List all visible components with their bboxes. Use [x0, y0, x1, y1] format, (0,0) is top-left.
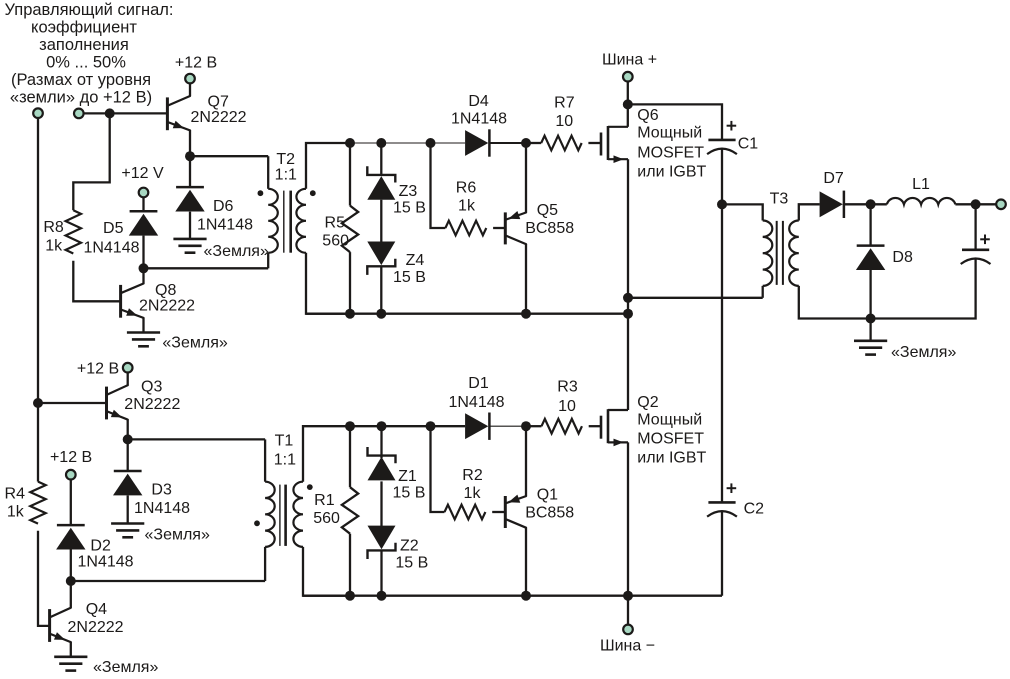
resistor R2 1k	[445, 505, 486, 520]
wire tap down to R2	[431, 426, 445, 512]
svg-text:L1: L1	[912, 176, 930, 193]
node D2 anode / Q4 collector / T1	[66, 576, 76, 586]
svg-text:D2: D2	[90, 538, 111, 555]
wire node to R3	[526, 425, 542, 427]
svg-text:15 В: 15 В	[393, 485, 426, 502]
T2 secondary winding	[296, 189, 306, 253]
wire Q1 collector to rail	[525, 528, 527, 596]
svg-text:R6: R6	[456, 180, 477, 197]
wire output cap to return	[871, 258, 976, 319]
wire tap down to R6	[431, 143, 446, 228]
wire D1 cathode to node	[489, 425, 526, 427]
wire T3 secondary bottom	[799, 286, 871, 319]
transistor Q2 power MOSFET	[600, 416, 603, 439]
svg-text:MOSFET: MOSFET	[637, 145, 704, 162]
svg-text:1k: 1k	[45, 238, 63, 255]
transistor Q6 power MOSFET	[600, 133, 603, 156]
svg-text:2N2222: 2N2222	[139, 298, 195, 315]
wire node to T1 primary top	[128, 438, 265, 440]
svg-text:«земли» до +12 В): «земли» до +12 В)	[10, 89, 152, 107]
node Q6 source / T3	[623, 293, 633, 303]
wire to T3 primary bottom	[628, 297, 763, 299]
svg-text:15 В: 15 В	[393, 200, 426, 217]
svg-text:Мощный: Мощный	[637, 412, 702, 429]
svg-text:MOSFET: MOSFET	[637, 431, 704, 448]
wire Q4 collector	[70, 581, 72, 608]
wire to Q3 base	[38, 402, 107, 404]
svg-text:+12 В: +12 В	[50, 449, 92, 466]
svg-text:D8: D8	[892, 249, 913, 266]
node input junction	[105, 108, 115, 118]
diode D7	[820, 191, 843, 217]
svg-text:или IGBT: или IGBT	[637, 450, 706, 467]
T3 secondary winding	[789, 221, 799, 286]
diode D1 1N4148	[465, 413, 488, 439]
node D8 anode / output return	[866, 314, 876, 324]
svg-text:R3: R3	[557, 379, 578, 396]
svg-text:Z3: Z3	[399, 183, 418, 200]
svg-text:C1: C1	[738, 136, 759, 153]
svg-text:10: 10	[558, 398, 576, 415]
node Q6 drain / C1	[623, 99, 633, 109]
wire Q3 emitter to node	[127, 420, 129, 440]
zener diode Z4 15V	[367, 259, 395, 275]
node rail Z2 bottom	[377, 591, 387, 601]
node rail R6 tap	[426, 138, 436, 148]
T1 primary winding	[265, 482, 275, 547]
svg-text:Q3: Q3	[141, 379, 162, 396]
wire Q7 emitter to node	[189, 130, 191, 156]
svg-text:«Земля»: «Земля»	[162, 334, 227, 351]
svg-text:Мощный: Мощный	[637, 125, 702, 142]
svg-text:BC858: BC858	[525, 220, 574, 237]
inductor L1	[887, 198, 956, 204]
input terminal (signal)	[74, 109, 84, 119]
wire T1 primary bottom	[264, 547, 266, 581]
wire T1 primary top	[264, 439, 266, 481]
svg-text:1k: 1k	[458, 198, 476, 215]
svg-text:D1: D1	[468, 375, 489, 392]
diode D6 1N4148	[189, 156, 191, 187]
svg-text:560: 560	[322, 233, 349, 250]
node rail Q1 collector	[521, 591, 531, 601]
ground D3	[111, 524, 144, 538]
node rail R1 bottom	[345, 591, 355, 601]
T3 core	[776, 221, 778, 285]
ground Q4	[54, 657, 87, 671]
node rail Q5 collector	[521, 309, 531, 319]
node rail Z4 bottom	[376, 309, 386, 319]
resistor R3 10	[542, 419, 582, 434]
zener diode Z1 15V	[380, 426, 382, 458]
wire T1 secondary top to rail	[303, 426, 350, 482]
svg-text:R4: R4	[5, 486, 26, 503]
wire input node down to R8	[73, 113, 109, 210]
svg-text:D6: D6	[213, 198, 234, 215]
wire T2 primary bottom	[267, 253, 269, 268]
wire C1 node down to C2	[721, 204, 723, 502]
transistor Q1 BC858	[504, 496, 507, 528]
node D7/L1/D8	[866, 199, 876, 209]
svg-text:+12 V: +12 V	[121, 165, 164, 182]
svg-text:1N4148: 1N4148	[78, 554, 134, 571]
svg-text:2N2222: 2N2222	[124, 396, 180, 413]
node bus- junction	[623, 591, 633, 601]
svg-text:T1: T1	[275, 433, 294, 450]
svg-text:1N4148: 1N4148	[134, 500, 190, 517]
wire node to bus- terminal	[627, 596, 629, 625]
output terminal	[996, 200, 1006, 210]
wire Q5 emitter from node	[525, 143, 527, 213]
wire node to T2 primary bottom	[144, 267, 269, 269]
svg-text:R5: R5	[325, 215, 346, 232]
wire Q1 emitter from node	[525, 426, 527, 496]
diode D3 1N4148	[127, 439, 129, 471]
svg-text:Q8: Q8	[155, 282, 176, 299]
wire rail tap to D1 anode	[431, 425, 466, 427]
resistor R8 1k	[66, 210, 81, 253]
wire input-left vertical	[37, 118, 39, 482]
diode D8	[869, 204, 871, 245]
svg-text:«Земля»: «Земля»	[145, 527, 210, 544]
svg-text:2N2222: 2N2222	[191, 109, 247, 126]
resistor R1 560	[349, 426, 351, 487]
svg-text:1k: 1k	[464, 485, 482, 502]
wire D8 node to ground	[869, 319, 871, 341]
T1 core	[279, 485, 281, 546]
node Q3 emitter	[123, 434, 133, 444]
svg-text:1N4148: 1N4148	[83, 240, 139, 257]
svg-text:2N2222: 2N2222	[68, 619, 124, 636]
wire R2 to Q1 base	[492, 511, 505, 513]
svg-text:T2: T2	[276, 151, 295, 168]
svg-text:15 В: 15 В	[393, 269, 426, 286]
input terminal (left)	[33, 108, 43, 118]
bus- terminal	[623, 625, 633, 635]
wire T2 secondary bottom to rail	[306, 253, 350, 314]
wire rail top R1-Z1	[350, 425, 382, 427]
svg-text:D4: D4	[468, 93, 489, 110]
ground output	[854, 341, 887, 355]
wire T2 secondary top to rail	[306, 143, 350, 189]
svg-text:T3: T3	[770, 190, 789, 207]
node D5 anode / Q8 collector	[139, 263, 149, 273]
svg-text:(Размах от уровня: (Размах от уровня	[11, 71, 151, 89]
svg-text:коэффициент: коэффициент	[31, 19, 137, 37]
wire Q7 collector	[189, 83, 191, 96]
svg-text:Z2: Z2	[400, 538, 419, 555]
wire bottom rail (lower cell)	[303, 595, 722, 597]
svg-text:Z1: Z1	[398, 468, 417, 485]
wire input to Q7 base	[83, 112, 167, 114]
node half-bridge mid rail	[623, 309, 633, 319]
wire R8 to Q8 base	[73, 261, 120, 302]
svg-text:R8: R8	[43, 219, 64, 236]
resistor R4 1k	[30, 482, 45, 524]
svg-text:1N4148: 1N4148	[448, 394, 504, 411]
T2 primary phase dot	[258, 190, 264, 196]
node Q7 emitter	[185, 151, 195, 161]
transistor Q7 2N2222	[166, 97, 169, 130]
resistor R5 560	[349, 143, 351, 206]
T1 secondary phase dot	[307, 484, 313, 490]
wire C1 to node	[721, 148, 723, 204]
wire Q2 source to bus-	[627, 442, 629, 595]
wire node to T2 primary	[190, 155, 268, 157]
wire R7 to Q6 gate	[588, 142, 601, 144]
svg-text:D3: D3	[151, 482, 172, 499]
svg-text:Z4: Z4	[406, 252, 425, 269]
zener diode Z3 15V	[380, 143, 382, 176]
wire T3 primary bottom	[762, 286, 764, 298]
svg-text:Q6: Q6	[637, 107, 658, 124]
wire T1 secondary bottom to rail	[303, 547, 350, 596]
T2 primary winding	[268, 189, 278, 253]
wire bottom rail	[306, 313, 628, 315]
resistor R7 10	[541, 136, 581, 151]
svg-text:Q4: Q4	[86, 601, 107, 618]
wire node to T1 primary bottom	[71, 580, 265, 582]
ground Q8	[127, 333, 160, 347]
wire Q6 drain node to C1	[628, 104, 722, 139]
node Q3 base tap	[33, 398, 43, 408]
wire Q8 emitter to ground	[142, 318, 144, 333]
wire Q4 emitter to ground	[70, 642, 72, 657]
diode D5 1N4148	[142, 197, 144, 211]
wire Q5 collector to rail	[525, 244, 527, 314]
T2 core	[283, 191, 285, 253]
svg-text:«Земля»: «Земля»	[93, 659, 158, 676]
svg-text:BC858: BC858	[525, 505, 574, 522]
T1 primary phase dot	[254, 520, 260, 526]
svg-text:1:1: 1:1	[275, 167, 297, 184]
wire rail top Z1-tap	[382, 425, 431, 427]
wire node to output terminal	[976, 203, 997, 205]
svg-text:1N4148: 1N4148	[451, 111, 507, 128]
wire Z3-Z4	[380, 200, 382, 245]
wire rail tap to D4 anode	[431, 142, 466, 144]
wire Z1-Z2	[380, 481, 382, 527]
output capacitor	[974, 204, 976, 250]
svg-text:Q5: Q5	[537, 202, 558, 219]
wire D7 to node	[844, 203, 871, 205]
wire bus+ to Q6 drain	[627, 81, 629, 127]
wire R4 to Q4 base	[38, 531, 50, 626]
T2 secondary phase dot	[310, 190, 316, 196]
wire R6 to Q5 base	[493, 227, 506, 229]
node D4/R7/Q5	[521, 138, 531, 148]
capacitor C2	[708, 501, 735, 504]
wire rail top R5-Z3	[350, 142, 381, 144]
svg-text:R1: R1	[314, 492, 335, 509]
svg-text:+12 В: +12 В	[77, 361, 119, 378]
svg-text:Q7: Q7	[208, 94, 229, 111]
wire T3 secondary top to D7	[799, 204, 820, 220]
zener diode Z2 15V	[368, 543, 396, 559]
wire C2 to bus- rail	[721, 511, 723, 596]
transistor Q3 2N2222	[105, 387, 108, 420]
transistor Q5 BC858	[504, 212, 507, 244]
svg-text:D7: D7	[823, 170, 844, 187]
svg-text:«Земля»: «Земля»	[204, 243, 269, 260]
wire rail top Z3-tap	[381, 142, 430, 144]
ground D6	[173, 239, 206, 253]
svg-text:560: 560	[313, 510, 340, 527]
node rail R2 tap	[426, 421, 436, 431]
wire T2 primary top	[267, 156, 269, 189]
diode D4 1N4148	[465, 130, 488, 156]
svg-text:Управляющий сигнал:: Управляющий сигнал:	[5, 1, 174, 19]
wire node to L1	[871, 203, 887, 205]
node D1/R3/Q1	[521, 421, 531, 431]
node rail Z3 top	[376, 138, 386, 148]
T1 secondary winding	[293, 482, 303, 547]
svg-text:Шина +: Шина +	[602, 52, 657, 69]
svg-text:Шина −: Шина −	[600, 638, 655, 655]
node C1 / T3 primary top	[717, 199, 727, 209]
wire Q8 collector	[142, 268, 144, 283]
wire Q6 source down to Q2 drain	[627, 159, 629, 410]
transistor Q4 2N2222	[48, 609, 51, 642]
node rail R5 top	[345, 138, 355, 148]
node rail Z1 top	[377, 421, 387, 431]
node rail R5 bottom	[345, 309, 355, 319]
node L1/output cap	[971, 199, 981, 209]
svg-text:D5: D5	[103, 220, 124, 237]
svg-text:или IGBT: или IGBT	[637, 164, 706, 181]
svg-text:1k: 1k	[7, 504, 25, 521]
svg-text:Q2: Q2	[637, 394, 658, 411]
svg-text:R7: R7	[554, 95, 575, 112]
transistor Q8 2N2222	[119, 285, 122, 318]
wire node to T3 primary top	[722, 204, 763, 220]
wire Q3 collector	[127, 372, 129, 385]
svg-text:«Земля»: «Земля»	[891, 344, 956, 361]
svg-text:Q1: Q1	[537, 487, 558, 504]
svg-text:15 В: 15 В	[395, 555, 428, 572]
svg-text:+12 В: +12 В	[175, 55, 217, 72]
wire D4 cathode to node	[489, 142, 526, 144]
svg-text:R2: R2	[462, 467, 483, 484]
diode D2 1N4148	[70, 479, 72, 525]
resistor R6 1k	[445, 221, 486, 236]
svg-text:0% ... 50%: 0% ... 50%	[46, 54, 126, 72]
svg-text:1:1: 1:1	[274, 452, 296, 469]
wire node to R7	[526, 142, 541, 144]
node rail R1 top	[345, 421, 355, 431]
capacitor C1	[708, 139, 735, 142]
svg-text:10: 10	[555, 113, 573, 130]
svg-text:C2: C2	[744, 501, 765, 518]
wire R3 to Q2 gate	[589, 425, 601, 427]
svg-text:заполнения: заполнения	[39, 36, 129, 54]
svg-text:1N4148: 1N4148	[197, 217, 253, 234]
wire L1 to output node	[955, 203, 975, 205]
T3 primary winding	[763, 221, 773, 286]
